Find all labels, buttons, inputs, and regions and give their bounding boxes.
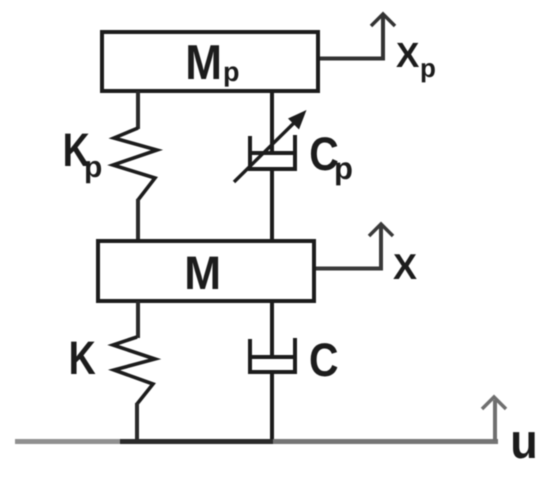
ground xyxy=(15,439,498,444)
svg-text:M: M xyxy=(184,246,221,299)
svg-text:M: M xyxy=(185,36,222,90)
svg-text:u: u xyxy=(510,415,538,469)
variable arrow through Cp xyxy=(234,110,307,182)
wire: damper C to ground xyxy=(270,374,274,441)
label C xyxy=(309,333,339,386)
svg-text:p: p xyxy=(420,53,436,83)
wire: damper Cp to M xyxy=(270,171,274,241)
label Mp xyxy=(185,36,239,90)
label Cp xyxy=(309,127,353,186)
displacement arrow Xp xyxy=(320,14,395,59)
label X xyxy=(393,246,417,287)
damper Cp piston plate xyxy=(248,151,296,155)
damper C cylinder cup xyxy=(250,338,295,372)
wire: spring Kp to M xyxy=(136,199,140,241)
svg-text:p: p xyxy=(223,57,240,87)
mass Mp xyxy=(102,32,318,91)
label Xp xyxy=(396,36,436,83)
wire: M to damper C piston rod xyxy=(270,301,274,356)
wire: Mp to damper Cp piston rod xyxy=(270,91,274,152)
wire: spring K to ground xyxy=(135,403,139,441)
label u xyxy=(510,415,538,469)
svg-text:p: p xyxy=(84,151,102,184)
damper C piston plate xyxy=(248,355,296,359)
svg-text:p: p xyxy=(334,151,353,186)
damper Cp cylinder cup xyxy=(250,135,295,169)
displacement arrow X xyxy=(316,224,393,269)
label M xyxy=(184,246,221,299)
label K xyxy=(69,331,96,384)
svg-text:C: C xyxy=(309,333,339,386)
spring Kp xyxy=(113,128,157,200)
svg-text:K: K xyxy=(69,331,96,384)
mass M xyxy=(98,241,314,301)
input arrow u xyxy=(482,397,506,441)
svg-text:X: X xyxy=(396,36,420,75)
wire: M to spring K xyxy=(136,301,140,338)
svg-text:X: X xyxy=(393,246,417,287)
wire: Mp to spring Kp xyxy=(136,91,140,129)
label Kp xyxy=(63,123,103,184)
spring K xyxy=(113,337,155,404)
